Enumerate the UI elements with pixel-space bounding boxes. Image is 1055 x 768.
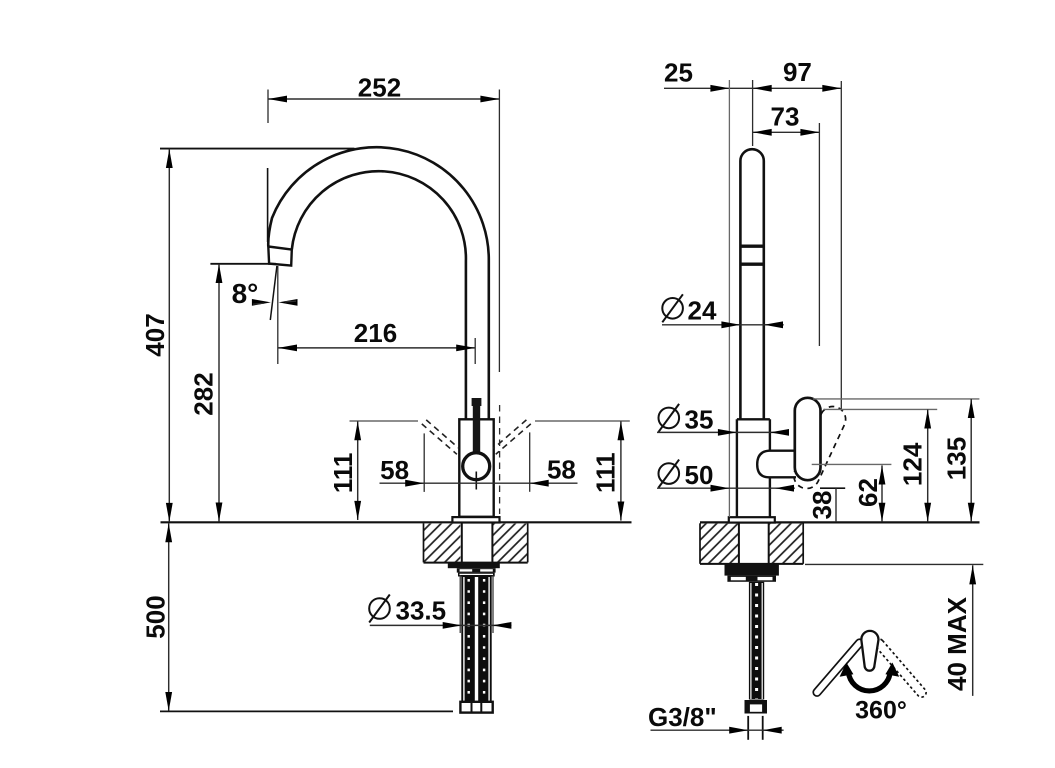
svg-text:252: 252: [358, 73, 401, 103]
svg-text:40 MAX: 40 MAX: [942, 596, 972, 691]
svg-text:500: 500: [141, 595, 171, 638]
svg-text:360°: 360°: [855, 697, 907, 725]
svg-text:216: 216: [354, 318, 397, 348]
svg-text:97: 97: [783, 57, 812, 87]
svg-text:50: 50: [685, 460, 714, 490]
svg-text:35: 35: [685, 405, 714, 435]
svg-text:111: 111: [591, 452, 621, 493]
svg-text:407: 407: [140, 313, 170, 356]
svg-text:62: 62: [853, 478, 883, 507]
svg-text:124: 124: [898, 442, 928, 486]
svg-text:25: 25: [664, 58, 693, 88]
svg-text:73: 73: [771, 102, 800, 132]
svg-text:G3/8": G3/8": [648, 702, 717, 732]
svg-text:282: 282: [188, 372, 218, 415]
svg-text:135: 135: [941, 437, 971, 480]
svg-text:58: 58: [380, 455, 409, 485]
svg-text:58: 58: [547, 455, 576, 485]
svg-text:8°: 8°: [232, 278, 259, 309]
svg-text:38: 38: [807, 491, 837, 520]
svg-text:111: 111: [328, 453, 358, 494]
svg-text:33.5: 33.5: [396, 596, 447, 626]
svg-text:24: 24: [688, 296, 717, 326]
